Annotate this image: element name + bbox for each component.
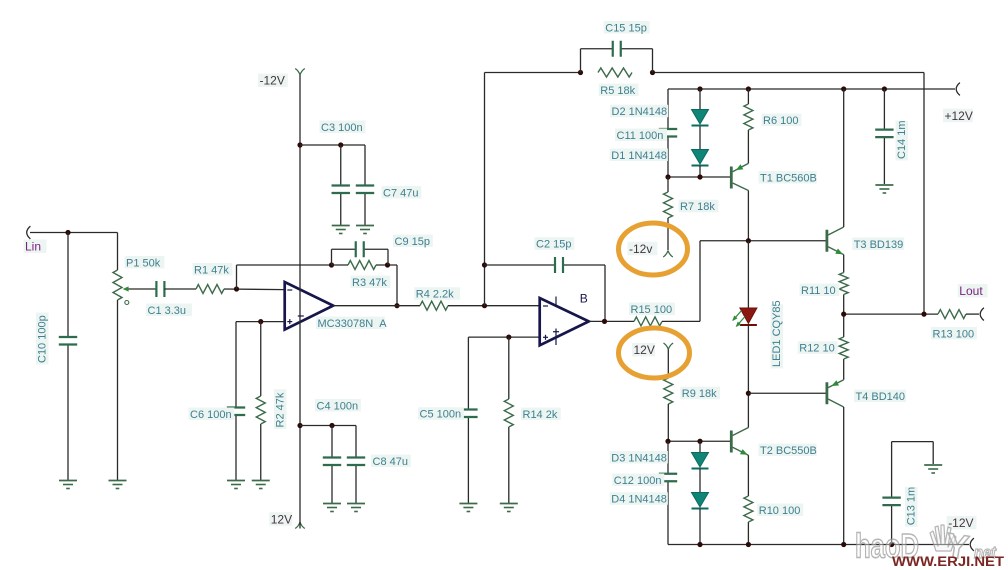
resistor R4 [420,301,448,310]
resistor R10 [744,496,753,522]
svg-text:R6 100: R6 100 [763,115,798,127]
svg-text:P1 50k: P1 50k [126,257,161,269]
svg-text:D2 1N4148: D2 1N4148 [612,106,668,118]
label 12V bottom [269,512,292,526]
svg-text:C7 47u: C7 47u [383,187,418,199]
resistor R6 leads [747,89,749,163]
diode D1 1N4148 [692,150,709,166]
annotation orange ellipse 12V [619,328,690,378]
svg-text:Lout: Lout [959,284,983,298]
junction C12 top [665,439,670,444]
ground below C10 [59,481,77,489]
wire LED bottom lead [747,325,749,393]
label R3 47k [351,276,391,289]
svg-text:C13 1m: C13 1m [905,487,917,526]
capacitor C6 leads [235,322,237,480]
capacitor C5 leads [467,337,469,503]
label C14 1m [896,120,909,160]
wire R9 to T2 base row [667,404,669,441]
label T3 BD139 [852,238,904,251]
label R4 2.2k [414,287,460,300]
resistor R9 [664,378,673,404]
potentiometer P1 [113,270,122,300]
wire -12V bottom rail [668,544,969,546]
wire R4 to opamp B inverting input [448,305,540,307]
svg-text:R3 47k: R3 47k [352,277,387,289]
svg-text:C14 1m: C14 1m [896,120,908,159]
svg-text:C2 15p: C2 15p [536,239,571,251]
potentiometer P1 wiper [123,286,156,304]
ground below C3 [332,226,350,234]
svg-text:C12 100n: C12 100n [614,475,662,487]
junction Lin/C10 [65,230,70,235]
ground below C14 [875,185,893,193]
label R15 100 [629,303,675,316]
label C4 100n [315,399,361,412]
wire C3/C7 rail [300,144,365,146]
label C8 47u [371,455,411,468]
label LED1 CQY85 [771,300,784,368]
label C15 15p [604,21,650,34]
svg-text:B: B [580,292,588,306]
resistor R14 [504,399,513,427]
wire B feedback riser [484,73,486,306]
wire LED top lead [747,241,749,308]
watermark haoDIY WWW.ERJI.NET [855,525,1005,569]
power -12v stub at R7 [663,251,673,258]
capacitor C3 [332,186,350,194]
wire R15 to driver bases [662,241,700,322]
svg-text:R1 47k: R1 47k [194,264,229,276]
junction opamp A output [394,303,399,308]
label C12 100n [612,474,664,487]
label P1 50k [125,256,165,269]
label B [580,292,588,306]
label R2 47k [274,389,287,429]
label C9 15p [393,235,433,248]
op-amp U1B MC33078N [540,298,589,345]
wire Lin to P1 [30,232,118,234]
label C5 100n [418,407,464,420]
wire D3 to D4 [699,469,701,493]
label MC33078N A [316,317,387,330]
resistor R1 [196,285,224,294]
ground below R14 [500,504,518,512]
label R9 18k [680,387,720,400]
svg-text:R11 10: R11 10 [801,285,836,297]
label R13 100 [931,327,977,340]
capacitor C7 leads [364,145,366,225]
svg-text:C9 15p: C9 15p [395,236,430,248]
junction B output node [602,319,607,324]
power -12V top stub [295,69,305,76]
node -12V bottom terminal [947,516,977,551]
resistor R10 leads [747,455,749,544]
ground below C5 [459,504,477,512]
capacitor C2 [555,257,563,273]
LED LED1 CQY85 [732,308,757,327]
svg-text:R10 100: R10 100 [759,505,801,517]
resistor R7 leads [667,177,669,250]
op-amp U1A MC33078N [285,282,334,330]
resistor R3 [348,261,376,270]
svg-text:C11 100n: C11 100n [617,130,664,142]
junction feedback tap [921,312,926,317]
op-amp B supply stubs [555,297,557,346]
capacitor C9 [356,241,364,257]
junction C15 left [578,70,583,75]
capacitor C10 leads [67,233,69,481]
power 12V stub at R9 [664,343,674,378]
op-amp A input markers [287,290,304,324]
wire T4 collector down [843,407,845,545]
label C3 100n [320,121,366,134]
label T1 BC560B [759,171,817,184]
svg-text:12V: 12V [271,512,292,526]
svg-text:T3 BD139: T3 BD139 [854,239,904,251]
junction R1/feedback node [234,286,239,291]
resistor R12 [839,337,848,359]
wire opamp B plus input [468,336,539,338]
capacitor C2 leads [485,265,606,321]
junction C14 top [882,86,887,91]
wire C13 to ground [892,442,934,464]
wire D4 bottom lead [699,509,701,545]
capacitor C15 [613,41,621,57]
wire R13 to Lout [966,313,979,315]
capacitor C14 leads [883,89,885,184]
junction R10 bottom [746,542,751,547]
label D3 1N4148 [610,451,668,464]
svg-text:+12V: +12V [945,109,973,123]
junction C15 right [650,70,655,75]
potentiometer P1 leads [117,233,119,481]
label D1 1N4148 [610,149,668,162]
wire global feedback top [485,73,925,315]
resistor R11 [839,273,848,295]
svg-text:C4 100n: C4 100n [317,400,359,412]
junction R2 tap [258,319,263,324]
transistor T2 BC550B [731,428,748,456]
resistor R7 [664,192,673,218]
diode D2 leads [699,89,701,150]
capacitor C7 [356,186,374,194]
label R5 18k [599,84,639,97]
label C11 100n [615,129,667,142]
ground below C6 [227,481,245,489]
label R6 100 [762,114,802,127]
svg-text:R2 47k: R2 47k [274,392,286,427]
op-amp B input markers [543,306,559,340]
label T4 BD140 [854,390,906,403]
junction C4 tap [329,423,334,428]
label C1 3.3u [146,304,192,317]
junction T3 collector top [841,86,846,91]
ground below R2 [252,481,270,489]
svg-text:T4 BD140: T4 BD140 [856,391,906,403]
junction R6 top [746,86,751,91]
ground below C7 [356,226,374,234]
junction C3 tap [338,142,343,147]
power 12V bottom stub [295,522,305,529]
junction D1 bottom [697,174,702,179]
wire -12V supply line through opamp A [299,287,301,529]
svg-text:-12V: -12V [260,74,285,88]
label C7 47u [382,186,422,199]
svg-text:-12v: -12v [629,242,652,256]
diode D3 1N4148 [692,453,709,469]
resistor R13 [938,310,966,319]
svg-text:C1 3.3u: C1 3.3u [148,305,187,317]
capacitor C10 [59,337,77,345]
capacitor C4 leads [331,426,333,504]
label T2 BC550B [759,444,817,457]
junction R3 right [385,262,390,267]
junction T1 collector/LED node [746,238,751,243]
label C6 100n [189,408,235,421]
wire T4 base row [748,392,827,394]
capacitor C13 leads [891,442,893,545]
wire +12V rail [668,88,955,90]
wire T2 collector up [747,393,749,427]
capacitor C13 [882,498,900,506]
capacitor C6 [227,408,245,416]
junction T2 collector/T4 base node [746,391,751,396]
wire R3 to opamp A output [396,265,398,306]
ground below C8 [347,504,365,512]
wire opamp A output to R4 [333,305,420,307]
label -12V top [258,74,288,88]
node Lout terminal [958,284,988,321]
svg-text:C5 100n: C5 100n [420,409,462,421]
label R11 10 [800,284,840,297]
wire T3 base row [700,240,827,242]
svg-text:MC33078N A: MC33078N A [318,318,388,330]
label D4 1N4148 [610,492,668,505]
resistor R14 leads [508,337,510,503]
svg-text:C15 15p: C15 15p [605,22,647,34]
label R10 100 [757,504,803,517]
svg-text:R12 10: R12 10 [799,343,834,355]
resistor R5 [598,68,632,77]
capacitor C9 loop wires [332,249,389,265]
svg-text:R9 18k: R9 18k [682,388,717,400]
capacitor C8 leads [355,426,357,504]
svg-text:R14 2k: R14 2k [523,409,558,421]
svg-text:T1 BC560B: T1 BC560B [760,172,817,184]
wire T2 base row [668,440,731,442]
svg-text:R7 18k: R7 18k [680,201,715,213]
capacitor C15 loop wires [581,49,653,73]
capacitor C11 leads [667,89,669,177]
junction B inverting node [482,303,487,308]
capacitor C11 [659,129,677,137]
resistor R6 [744,104,753,130]
resistor R2 [256,396,265,424]
transistor T3 BD139 [827,227,844,255]
resistor R12 leads [843,314,845,380]
label R12 10 [798,341,838,354]
label R1 47k [193,263,233,276]
junction output node [841,312,846,317]
svg-text:D3 1N4148: D3 1N4148 [611,452,667,464]
label R7 18k [679,200,719,213]
junction C13 bottom [889,542,894,547]
svg-text:C8 47u: C8 47u [373,456,408,468]
capacitor C12 leads [667,441,669,544]
svg-text:D4 1N4148: D4 1N4148 [611,494,667,506]
resistor R2 leads [260,322,262,480]
diode D3 leads [699,441,701,452]
capacitor C1 [156,281,164,297]
label C2 15p [535,237,575,250]
wire T3 collector up [843,89,845,227]
capacitor C5 [459,410,477,418]
svg-text:C3 100n: C3 100n [321,122,363,134]
label 12V annotated [632,343,655,357]
wire opamp B output [589,320,634,322]
wire T1 collector down [747,191,749,241]
wire feedback riser to R3 [237,265,332,289]
wire C4/C8 rail [300,425,356,427]
svg-text:R4 2.2k: R4 2.2k [416,289,454,301]
svg-text:D1 1N4148: D1 1N4148 [611,150,667,162]
svg-text:Lin: Lin [25,240,41,254]
label C13 1m [905,487,918,527]
svg-text:C6 100n: C6 100n [190,409,232,421]
ground below C4 [323,504,341,512]
junction D2 top [697,86,702,91]
junction C2 left [482,262,487,267]
wire C1 to R1 [164,288,196,290]
label D2 1N4148 [610,105,668,118]
svg-text:C10 100p: C10 100p [36,315,48,363]
label C10 100p [36,312,49,364]
junction R3 left [329,262,334,267]
capacitor C14 [875,130,893,138]
wire opamp A plus input [236,321,285,323]
svg-text:12V: 12V [634,343,655,357]
diode D4 1N4148 [692,493,709,509]
svg-text:R5 18k: R5 18k [600,85,635,97]
diode D2 1N4148 [692,110,709,126]
svg-text:R15 100: R15 100 [631,304,673,316]
svg-text:WWW.ERJI.NET: WWW.ERJI.NET [892,554,1005,569]
label -12v annotated [628,242,658,256]
svg-text:T2 BC550B: T2 BC550B [760,445,817,457]
capacitor C3 leads [340,145,342,225]
wire R3 leads [332,264,398,266]
transistor T4 BD140 [827,380,844,407]
junction T4 collector bottom [841,542,846,547]
resistor R11 leads [843,255,845,315]
node +12V terminal [943,83,973,123]
wire D1 to base node [699,166,701,178]
resistor R15 [634,317,662,326]
junction D4 bottom [697,542,702,547]
node Lin input terminal [24,226,47,254]
junction D3 top [697,439,702,444]
wire T1 base row [668,176,731,178]
svg-text:LED1 CQY85: LED1 CQY85 [771,300,783,367]
junction C11 bottom [665,174,670,179]
capacitor C12 [659,474,677,482]
junction C4 rail left [297,423,302,428]
capacitor C4 [323,458,341,466]
ground below P1 [109,481,127,489]
junction C3 rail left [297,142,302,147]
wire R1 to opamp A inverting input [224,288,285,291]
wire output row [844,313,938,315]
label R14 2k [521,408,561,421]
svg-text:R13 100: R13 100 [933,328,975,340]
wire -12V supply line upper [299,75,301,287]
capacitor C8 [347,458,365,466]
junction R14 tap [506,335,511,340]
transistor T1 BC560B [731,163,748,190]
annotation orange ellipse -12v [619,223,688,275]
ground at C13 [924,465,942,473]
